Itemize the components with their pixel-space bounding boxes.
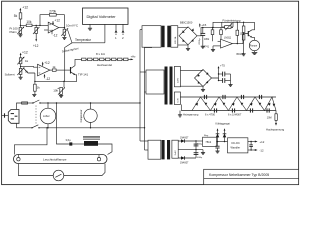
ground (divider) — [242, 54, 246, 56]
resistor R3 270k — [49, 9, 56, 16]
svg-text:10M: 10M — [267, 117, 272, 120]
bridge rectifier B1 B80C1500 — [178, 21, 197, 45]
resistor R5 10k to ground — [34, 81, 41, 91]
svg-text:1N4007: 1N4007 — [180, 137, 189, 140]
feedback wire — [40, 15, 64, 28]
resistor R14b — [220, 27, 223, 39]
svg-text:3,6µ: 3,6µ — [66, 138, 72, 142]
cascade top rail — [180, 96, 276, 98]
regulator box 7812 — [195, 135, 227, 146]
wire to ballast — [56, 102, 68, 144]
svg-text:+12: +12 — [33, 44, 39, 48]
svg-text:+12: +12 — [22, 5, 28, 9]
svg-text:Reg.: Reg. — [204, 135, 209, 137]
svg-text:Kompressor Nebelkammer Typ B/: Kompressor Nebelkammer Typ B/2005 — [209, 173, 269, 177]
capacitor C ballast series — [66, 138, 85, 146]
wire node to U2 + input — [21, 65, 38, 68]
capacitor C7 (between outputs) — [249, 141, 253, 151]
diode D4 (peltier feed) — [223, 128, 227, 142]
pot P6 in rail — [222, 22, 233, 30]
svg-text:5k: 5k — [14, 14, 18, 18]
U1 -12 supply pin — [51, 29, 58, 37]
border frame — [2, 1, 299, 184]
svg-text:TIP 141: TIP 141 — [78, 73, 88, 77]
upper rail (wiper return) — [212, 22, 254, 28]
svg-text:+15: +15 — [201, 23, 206, 27]
capacitor C2 — [218, 72, 231, 77]
transformer T3 primary — [148, 140, 161, 159]
cascade diode zigzag — [192, 97, 276, 111]
voltmeter ground lead — [88, 24, 92, 30]
svg-text:+12: +12 — [22, 50, 28, 54]
HV output arrow — [266, 120, 285, 131]
U2 +12 supply pin — [42, 61, 50, 66]
capacitor C6 — [215, 142, 219, 151]
svg-text:Kompressor: Kompressor — [80, 109, 83, 122]
switch gang link (dashed) — [35, 106, 37, 125]
svg-text:1000µ: 1000µ — [197, 157, 203, 159]
ground (pump) — [252, 52, 258, 54]
svg-text:6,3V: 6,3V — [178, 98, 180, 103]
transformer T1 primary — [142, 26, 161, 48]
heater chain R6..R13 — [81, 58, 129, 61]
svg-text:180k: 180k — [204, 38, 210, 41]
ground (C1) — [201, 46, 205, 48]
bridge rectifier B2 — [180, 70, 211, 87]
capacitor C4 1000u — [194, 143, 203, 146]
SECTION M: title block — [204, 169, 299, 184]
capacitor C3 — [218, 78, 231, 83]
pot P4 5k Sollwert — [5, 67, 29, 76]
svg-text:Lüfter: Lüfter — [43, 114, 50, 118]
svg-text:8 x 1Ω: 8 x 1Ω — [96, 52, 106, 56]
svg-text:Kühlaggregat: Kühlaggregat — [216, 123, 231, 126]
resistor R16 divider top — [242, 22, 245, 33]
motor M3 pump — [249, 40, 259, 52]
ground (P4) — [19, 74, 23, 79]
capacitor C5 1000u — [194, 153, 203, 159]
diode D1 1N4007 — [178, 137, 196, 143]
motor M1 fan — [40, 102, 56, 128]
svg-text:270k: 270k — [49, 9, 56, 13]
resistor R14 180k — [204, 27, 214, 41]
svg-text:Temperatur: Temperatur — [75, 38, 92, 42]
cascade capacitors top row — [204, 95, 261, 99]
diode D3 (peltier feed) — [216, 128, 220, 142]
transistor Q1 TIP141 — [71, 66, 89, 77]
ground (center tap) — [201, 150, 205, 155]
top mains wire — [40, 102, 140, 104]
svg-text:Leuchtstofflampe: Leuchtstofflampe — [43, 157, 67, 161]
svg-text:Heizwendel: Heizwendel — [97, 63, 112, 67]
svg-text:B80C1500: B80C1500 — [180, 21, 193, 25]
node wire junction — [39, 25, 40, 26]
transformer T2 primary — [146, 70, 164, 94]
ground (P2) — [62, 35, 66, 39]
transistor Q2 BD135 — [237, 30, 253, 56]
wire P4 wiper to U2 - input — [24, 69, 35, 73]
sensor Pt100 — [10, 26, 25, 34]
resistor R17 divider bottom — [242, 32, 245, 53]
ground (cascade) — [178, 111, 182, 118]
transformer T2 secondary upper 220V — [174, 66, 180, 86]
svg-text:1000µ: 1000µ — [197, 143, 203, 145]
bus wire B — [144, 47, 146, 150]
motor M2 compressor — [80, 102, 97, 128]
svg-text:1k: 1k — [25, 59, 29, 63]
svg-text:Wandler: Wandler — [231, 145, 241, 149]
+75 output — [212, 63, 226, 78]
ground (C6) — [215, 151, 219, 153]
plug top lead — [17, 103, 22, 110]
transformer T3 core — [162, 140, 171, 159]
ground (bridge B2) — [201, 87, 205, 92]
label Temperatur — [68, 30, 105, 43]
svg-text:10mV/°C: 10mV/°C — [66, 24, 79, 28]
cascade bottom rail — [181, 110, 276, 112]
svg-text:6 x 4700: 6 x 4700 — [205, 113, 216, 117]
node setpoint junction — [20, 66, 21, 67]
cascade capacitors bottom row — [214, 108, 269, 112]
svg-text:Förderleistung: Förderleistung — [223, 18, 241, 22]
node A junction — [20, 25, 21, 26]
capacitor C1 2200u — [199, 27, 205, 46]
svg-text:6 x 1N4007: 6 x 1N4007 — [228, 113, 242, 117]
Q1 emitter wire / feedback line — [35, 75, 77, 88]
op-amp U1 — [40, 22, 59, 33]
center tap wire — [178, 149, 203, 150]
svg-text:+12: +12 — [44, 61, 50, 65]
trimmer P2 (scale) — [61, 28, 68, 36]
svg-text:DC-DC: DC-DC — [232, 141, 240, 145]
U2 -12 supply pin — [44, 74, 51, 80]
output +12 — [248, 140, 265, 144]
Q2 emitter to pump — [252, 37, 255, 40]
resistor R18 10M — [267, 111, 278, 121]
svg-text:10k: 10k — [53, 89, 58, 93]
svg-text:Platin: Platin — [10, 30, 17, 34]
svg-text:2200µ: 2200µ — [199, 38, 201, 45]
ground (P5) — [59, 96, 63, 98]
svg-text:Pumpe: Pumpe — [250, 45, 258, 48]
+15 rail — [197, 23, 233, 36]
svg-text:Digital Voltmeter: Digital Voltmeter — [87, 14, 117, 19]
svg-text:LM311: LM311 — [224, 37, 232, 40]
bus junctions — [139, 102, 145, 128]
mains plug connector — [8, 110, 19, 124]
resistor R15 10k — [236, 22, 244, 44]
ground (Pt100) — [18, 34, 22, 37]
tube electrode left — [17, 155, 20, 161]
svg-text:18V 3A: 18V 3A — [174, 36, 177, 44]
svg-text:+12: +12 — [260, 140, 265, 144]
supply +12 arrow (setpoint divider) — [20, 50, 28, 57]
svg-text:Heizspannung: Heizspannung — [183, 114, 199, 117]
terminal 1 — [115, 24, 118, 39]
fuse F1 — [22, 102, 33, 104]
switch S1 — [32, 100, 40, 104]
svg-text:-12: -12 — [53, 34, 58, 38]
ballast choke Dr — [83, 136, 112, 154]
svg-text:µA741: µA741 — [202, 45, 210, 48]
ground (U3 + input) — [211, 46, 215, 52]
voltmeter input lead — [104, 24, 106, 42]
transformer T2 secondary lower 6,3V — [174, 92, 180, 105]
transformer T1 secondary 18V 3A — [171, 26, 178, 48]
svg-text:-12: -12 — [260, 148, 264, 152]
svg-text:Hochspannung: Hochspannung — [266, 128, 285, 132]
U3 output wire — [232, 34, 248, 45]
ground (R5) — [32, 91, 36, 96]
bottom mains wire — [39, 127, 145, 129]
resistor R2 10k — [20, 20, 40, 26]
comparator U3 — [213, 37, 232, 48]
resistor R1 5k — [14, 13, 22, 27]
wire to lamp left electrode — [14, 127, 47, 154]
svg-text:7812: 7812 — [205, 140, 211, 144]
fluorescent tube — [14, 155, 108, 164]
svg-text:1N4007: 1N4007 — [180, 161, 189, 164]
switch S2 — [31, 125, 39, 129]
U1 +12 supply pin — [52, 18, 60, 24]
wire U2 minus feedback — [34, 73, 36, 84]
pot P5 10k — [53, 87, 65, 95]
bus wire A — [139, 30, 141, 141]
svg-text:+Hz: +Hz — [131, 54, 137, 58]
svg-text:220V: 220V — [178, 77, 180, 83]
transformer T2 core — [165, 67, 173, 105]
resistor R4 1k — [50, 65, 71, 71]
output -12 — [248, 148, 264, 152]
diode D2 1N4007 — [178, 141, 196, 164]
tube electrode right — [97, 155, 100, 161]
terminal 2 — [122, 24, 125, 39]
svg-text:-12: -12 — [46, 77, 51, 81]
transformer T3 secondary 2x9V — [172, 140, 178, 158]
trimmer P1 (offset) to +12 — [33, 25, 39, 47]
svg-text:10k: 10k — [26, 20, 32, 24]
svg-text:+12: +12 — [55, 18, 61, 22]
bus stubs to transformers — [140, 30, 152, 150]
svg-text:+75: +75 — [220, 63, 225, 67]
U1 output wire — [59, 24, 79, 29]
starter S — [18, 164, 105, 181]
supply +12 arrow (sensor divider) — [20, 5, 29, 12]
ground (bridge B1) — [186, 45, 190, 51]
Q1 collector wire to heater chain — [75, 59, 81, 65]
voltmeter box — [83, 8, 129, 24]
wire setpoint sense — [65, 43, 72, 82]
pot P3 1k — [17, 57, 28, 69]
heater chain end arrow — [129, 54, 136, 60]
secondary feed to bottom rail — [180, 105, 182, 111]
op-amp U2 — [38, 64, 50, 76]
Q2 collector to +15 rail — [252, 22, 255, 30]
ground (C2 C3) — [228, 74, 232, 87]
svg-text:2x9V: 2x9V — [175, 150, 177, 156]
transformer T1 core — [161, 26, 170, 48]
svg-text:1k: 1k — [52, 65, 56, 69]
svg-text:Sollwert: Sollwert — [5, 72, 15, 76]
DC-DC converter box — [228, 138, 248, 153]
plug bottom lead — [17, 123, 33, 128]
node B junction — [36, 25, 37, 26]
svg-text:1k: 1k — [37, 86, 41, 90]
mains cable stub — [2, 113, 8, 117]
svg-text:BD135: BD135 — [237, 53, 245, 56]
